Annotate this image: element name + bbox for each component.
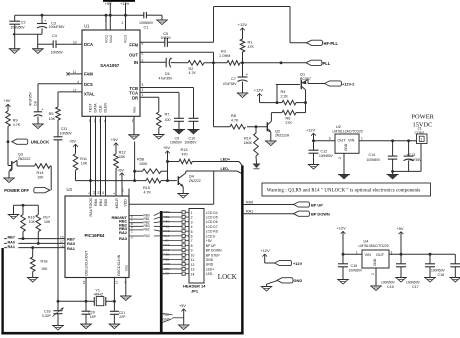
svg-text:+C13: +C13	[407, 153, 416, 157]
svg-text:U4: U4	[364, 239, 369, 243]
svg-text:6: 6	[191, 235, 193, 239]
svg-text:FAM: FAM	[84, 72, 93, 77]
svg-text:R18: R18	[41, 259, 48, 263]
svg-text:JP1: JP1	[191, 289, 199, 294]
svg-text:+12V: +12V	[238, 22, 248, 27]
svg-text:2N2222: 2N2222	[189, 179, 201, 183]
svg-text:2: 2	[338, 157, 342, 159]
svg-text:RB1: RB1	[164, 215, 170, 219]
svg-text:10N50V: 10N50V	[185, 141, 198, 145]
svg-text:R12: R12	[119, 150, 126, 154]
svg-text:5: 5	[191, 230, 193, 234]
svg-text:Vcc1: Vcc1	[105, 35, 109, 43]
svg-text:DCS: DCS	[84, 82, 93, 87]
svg-text:GND: GND	[344, 143, 348, 151]
svg-text:GND: GND	[294, 278, 303, 283]
svg-text:POWER: POWER	[412, 114, 435, 121]
svg-text:R9: R9	[13, 119, 18, 123]
svg-text:U1: U1	[84, 23, 90, 28]
svg-text:OUT: OUT	[376, 253, 385, 257]
svg-text:R14: R14	[37, 171, 44, 175]
svg-text:DLEN: DLEN	[104, 103, 108, 113]
svg-text:2: 2	[191, 216, 193, 220]
svg-text:LM78L05AC/TO220: LM78L05AC/TO220	[359, 244, 389, 248]
svg-text:+5V: +5V	[111, 137, 118, 142]
svg-text:Vcc2: Vcc2	[109, 35, 113, 43]
svg-text:2: 2	[122, 21, 124, 25]
svg-text:OUT: OUT	[338, 139, 347, 143]
svg-text:RA2: RA2	[164, 229, 170, 233]
svg-text:2N2222A: 2N2222A	[275, 134, 290, 138]
svg-text:RA1: RA1	[246, 210, 253, 214]
svg-text:33K: 33K	[119, 155, 126, 159]
svg-text:3: 3	[191, 220, 193, 224]
svg-text:7: 7	[191, 239, 193, 243]
svg-text:C7: C7	[231, 77, 236, 81]
svg-text:TEST: TEST	[89, 103, 93, 113]
svg-text:+12V: +12V	[293, 261, 303, 266]
svg-text:GND: GND	[164, 262, 172, 266]
svg-text:DR: DR	[132, 95, 138, 100]
svg-text:BC557: BC557	[300, 77, 311, 81]
svg-text:1: 1	[142, 93, 144, 97]
svg-text:R1: R1	[248, 41, 253, 45]
svg-text:+12V: +12V	[261, 248, 271, 253]
svg-text:R17: R17	[43, 216, 50, 220]
svg-text:3: 3	[142, 83, 144, 87]
svg-text:VIN: VIN	[348, 139, 355, 143]
svg-text:10N50V: 10N50V	[60, 132, 73, 136]
svg-text:LED-: LED-	[164, 272, 171, 276]
svg-text:R58: R58	[137, 157, 144, 161]
svg-text:+5V: +5V	[69, 138, 76, 143]
svg-text:+5V: +5V	[397, 226, 404, 231]
svg-text:+5V: +5V	[206, 239, 213, 243]
svg-text:R6: R6	[286, 117, 291, 121]
svg-text:C6: C6	[165, 72, 170, 76]
svg-text:10K: 10K	[44, 220, 51, 224]
svg-text:C4: C4	[52, 34, 57, 38]
svg-text:100N50V: 100N50V	[431, 268, 446, 272]
svg-text:10uF35V: 10uF35V	[408, 158, 422, 162]
svg-text:1: 1	[105, 18, 107, 22]
svg-text:4.7K: 4.7K	[231, 118, 239, 122]
svg-text:+5V: +5V	[117, 167, 124, 172]
svg-text:GND: GND	[373, 258, 377, 266]
svg-text:LM78L12AC/TO220: LM78L12AC/TO220	[333, 130, 363, 134]
svg-text:R8: R8	[231, 114, 236, 118]
svg-text:RB0: RB0	[164, 210, 170, 214]
svg-text:RB4: RB4	[99, 199, 103, 206]
svg-text:RA4/TOCKI: RA4/TOCKI	[89, 198, 93, 217]
svg-text:470: 470	[182, 152, 188, 156]
svg-text:R2: R2	[189, 67, 194, 71]
svg-text:RB1: RB1	[164, 257, 170, 261]
svg-text:3: 3	[329, 136, 331, 140]
svg-text:VIN: VIN	[365, 253, 372, 257]
svg-text:1: 1	[191, 211, 193, 215]
svg-text:LED+: LED+	[221, 157, 231, 161]
svg-text:BP DOWN: BP DOWN	[206, 249, 222, 253]
svg-text:LED-: LED-	[206, 272, 214, 276]
svg-text:PLL: PLL	[323, 61, 331, 66]
svg-text:1: 1	[420, 138, 422, 142]
svg-text:RA1: RA1	[67, 246, 76, 251]
svg-text:+12V: +12V	[337, 226, 347, 231]
svg-text:100N50V: 100N50V	[319, 154, 334, 158]
svg-text:IN: IN	[134, 60, 138, 65]
svg-text:100N50V: 100N50V	[139, 21, 154, 25]
svg-text:9: 9	[191, 249, 193, 253]
svg-text:1 OHM: 1 OHM	[219, 54, 230, 58]
svg-text:4MHZ: 4MHZ	[94, 293, 103, 297]
svg-text:10K: 10K	[37, 175, 44, 179]
svg-text:LED-: LED-	[221, 167, 230, 171]
svg-text:10K: 10K	[49, 117, 56, 121]
svg-text:MCLR: MCLR	[115, 198, 119, 209]
svg-text:LCD E: LCD E	[206, 234, 217, 238]
svg-text:LCD D7: LCD D7	[206, 225, 218, 229]
svg-text:OUT: OUT	[129, 52, 138, 57]
svg-text:10K: 10K	[41, 267, 48, 271]
svg-text:POWER OFF: POWER OFF	[4, 188, 29, 193]
svg-text:10K: 10K	[29, 220, 36, 224]
svg-text:3-32P: 3-32P	[42, 314, 52, 318]
svg-text:C31: C31	[61, 127, 68, 131]
svg-text:LED+: LED+	[164, 267, 172, 271]
svg-text:C8: C8	[33, 101, 37, 106]
svg-text:+5V: +5V	[163, 145, 170, 150]
svg-text:R4: R4	[281, 90, 286, 94]
svg-text:OSC1/CLKIN: OSC1/CLKIN	[117, 254, 121, 276]
svg-text:C18: C18	[438, 273, 445, 277]
svg-text:RA2: RA2	[119, 230, 128, 235]
svg-text:RB7: RB7	[8, 236, 15, 240]
svg-text:+12V-2: +12V-2	[342, 81, 355, 86]
svg-text:RA0: RA0	[164, 243, 170, 247]
svg-text:SAA1057: SAA1057	[100, 63, 120, 68]
svg-text:CLB: CLB	[99, 105, 103, 113]
svg-text:HF-PLL: HF-PLL	[324, 41, 339, 46]
svg-text:LCD RS: LCD RS	[206, 230, 219, 234]
svg-text:XTAL: XTAL	[84, 91, 95, 96]
svg-text:100N50V: 100N50V	[406, 280, 421, 284]
svg-text:C14: C14	[369, 153, 376, 157]
svg-text:RA3: RA3	[119, 236, 128, 241]
svg-text:10N50V: 10N50V	[51, 51, 64, 55]
svg-text:BP DOWN: BP DOWN	[311, 212, 330, 217]
svg-text:RA3: RA3	[144, 234, 150, 238]
svg-text:100uF35V: 100uF35V	[49, 25, 65, 29]
svg-text:+9V: +9V	[4, 98, 11, 103]
svg-text:PIC16F84: PIC16F84	[85, 233, 105, 238]
svg-text:4.7K: 4.7K	[144, 191, 152, 195]
svg-text:BP STEP: BP STEP	[206, 253, 221, 257]
svg-text:RA0: RA0	[246, 200, 253, 204]
svg-text:U3: U3	[67, 187, 73, 192]
svg-text:DATA: DATA	[94, 103, 98, 113]
svg-text:FFM: FFM	[129, 42, 138, 47]
svg-text:12: 12	[92, 191, 96, 195]
svg-text:R7: R7	[165, 113, 170, 117]
svg-text:11: 11	[191, 258, 195, 262]
svg-text:18: 18	[60, 245, 64, 249]
svg-text:LCD D6: LCD D6	[206, 220, 218, 224]
svg-text:R16: R16	[28, 216, 35, 220]
svg-text:47K: 47K	[248, 45, 255, 49]
svg-text:DCA: DCA	[84, 42, 93, 47]
svg-text:10K: 10K	[81, 162, 88, 166]
svg-text:LED+: LED+	[206, 267, 214, 271]
svg-text:+5V: +5V	[164, 239, 171, 243]
svg-text:4.7K: 4.7K	[13, 123, 21, 127]
svg-text:LCD D4: LCD D4	[206, 211, 218, 215]
svg-text:10: 10	[191, 253, 195, 257]
svg-text:RB3: RB3	[164, 224, 170, 228]
svg-text:11: 11	[101, 191, 105, 194]
svg-text:OSC2/CLKOUT: OSC2/CLKOUT	[85, 250, 89, 276]
svg-text:+5V: +5V	[105, 2, 112, 6]
svg-text:RA1: RA1	[8, 245, 15, 249]
svg-text:100N50V: 100N50V	[367, 158, 382, 162]
svg-text:100: 100	[165, 118, 171, 122]
svg-text:100N50V: 100N50V	[381, 280, 396, 284]
svg-text:+12V: +12V	[254, 88, 264, 93]
svg-text:2N2222: 2N2222	[18, 157, 31, 161]
svg-text:RA1: RA1	[164, 248, 170, 252]
svg-text:LOCK: LOCK	[218, 273, 237, 281]
svg-text:Vee: Vee	[133, 107, 137, 113]
svg-text:+5V: +5V	[179, 304, 186, 308]
svg-text:10N50V: 10N50V	[170, 141, 183, 145]
svg-text:15P: 15P	[90, 315, 97, 319]
svg-text:180K: 180K	[244, 141, 253, 145]
svg-text:C15: C15	[351, 264, 358, 268]
svg-text:C12: C12	[321, 150, 328, 154]
svg-text:R10: R10	[244, 136, 251, 140]
svg-text:8: 8	[191, 244, 193, 248]
svg-text:1N50V: 1N50V	[161, 36, 172, 40]
svg-text:47uF35V: 47uF35V	[159, 77, 173, 81]
svg-text:47uF35V: 47uF35V	[29, 92, 33, 106]
svg-text:RB0: RB0	[164, 253, 170, 257]
svg-text:15VDC: 15VDC	[413, 121, 433, 128]
svg-text:R3: R3	[221, 50, 226, 54]
svg-text:RB6: RB6	[94, 199, 98, 206]
svg-text:+12V: +12V	[306, 127, 316, 132]
svg-text:C17: C17	[412, 285, 419, 289]
svg-text:13: 13	[191, 268, 195, 272]
svg-text:R13: R13	[181, 148, 188, 152]
svg-text:R5: R5	[49, 112, 54, 116]
svg-text:10: 10	[73, 40, 77, 44]
svg-text:15: 15	[82, 280, 86, 284]
svg-text:2.2K: 2.2K	[281, 94, 289, 98]
svg-text:RA3: RA3	[164, 234, 170, 238]
svg-text:C16: C16	[387, 285, 394, 289]
svg-text:100N50V: 100N50V	[349, 268, 364, 272]
svg-text:RA0: RA0	[8, 240, 15, 244]
svg-text:14: 14	[191, 272, 195, 276]
svg-text:R11: R11	[80, 157, 87, 161]
svg-text:4.7K: 4.7K	[189, 71, 197, 75]
svg-text:C1: C1	[144, 26, 149, 30]
svg-text:100K: 100K	[139, 162, 148, 166]
svg-text:10: 10	[97, 191, 101, 195]
svg-text:LCD D5: LCD D5	[206, 216, 218, 220]
svg-text:Vss: Vss	[124, 265, 128, 271]
svg-text:Vcc3: Vcc3	[124, 35, 128, 43]
svg-text:GND: GND	[206, 258, 214, 262]
svg-text:RB2: RB2	[164, 220, 170, 224]
svg-text:2: 2	[371, 273, 375, 275]
svg-text:R15: R15	[143, 186, 150, 190]
svg-text:RB5: RB5	[104, 199, 108, 206]
svg-text:47uF35V: 47uF35V	[223, 82, 237, 86]
svg-text:2: 2	[142, 88, 144, 92]
svg-text:VDD: VDD	[123, 199, 127, 207]
svg-text:1: 1	[361, 136, 363, 140]
svg-text:U2: U2	[336, 125, 341, 129]
svg-text:100N50V: 100N50V	[11, 26, 26, 30]
svg-text:27K: 27K	[286, 121, 293, 125]
svg-text:BP UP: BP UP	[311, 202, 323, 207]
svg-text:4: 4	[191, 225, 193, 229]
svg-text:C2: C2	[21, 20, 26, 24]
svg-text:RA2: RA2	[144, 228, 150, 232]
svg-text:GND: GND	[206, 263, 214, 267]
svg-text:12: 12	[191, 263, 195, 267]
svg-text:Warning : Q3,R9 and R14 " UNLO: Warning : Q3,R9 and R14 " UNLOCK " is op…	[267, 189, 421, 194]
svg-text:BP UP: BP UP	[206, 244, 217, 248]
svg-text:22P: 22P	[119, 315, 126, 319]
svg-text:UNLOCK: UNLOCK	[31, 140, 50, 145]
